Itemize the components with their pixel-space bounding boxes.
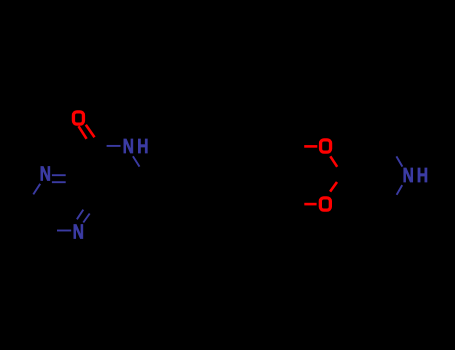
- C=O double bond line b: [86, 125, 95, 138]
- svg-text:N: N: [403, 165, 414, 187]
- wire O2-spiroC half bond: [330, 156, 337, 167]
- piperidine N-H label: [403, 165, 429, 187]
- wire N-CH2 half bond: [133, 156, 140, 166]
- wire aryl-O2 half bond: [304, 145, 317, 148]
- pyrazine N1=C double bond inner line: [52, 181, 66, 183]
- carbonyl O1 (amide C=O oxygen label): [73, 112, 83, 124]
- svg-text:N: N: [73, 222, 84, 244]
- C=O double bond line a: [79, 126, 87, 139]
- svg-text:N: N: [123, 136, 134, 158]
- dioxole O2 label (top right): [321, 140, 331, 152]
- amide N-H label: [123, 136, 149, 158]
- wire N4-C half bond: [57, 230, 71, 232]
- pyrazine N4=C double bond main line: [77, 210, 83, 220]
- wire piperidine C-N upper half bond: [396, 156, 402, 166]
- wire C(=O)-N half bond: [107, 145, 121, 147]
- wire aryl-O3 half bond: [304, 203, 316, 206]
- dioxole O3 label (bottom right): [320, 198, 330, 210]
- svg-text:H: H: [417, 165, 428, 187]
- pyrazine N4=C double bond inner line: [83, 214, 89, 223]
- pyrazine N1=C double bond main line: [52, 174, 66, 176]
- wire N1-C half bond: [33, 184, 40, 195]
- svg-text:N: N: [40, 164, 51, 186]
- wire piperidine C-N lower half bond: [397, 185, 403, 195]
- wire O3-spiroC half bond: [330, 182, 337, 192]
- svg-text:H: H: [137, 136, 148, 158]
